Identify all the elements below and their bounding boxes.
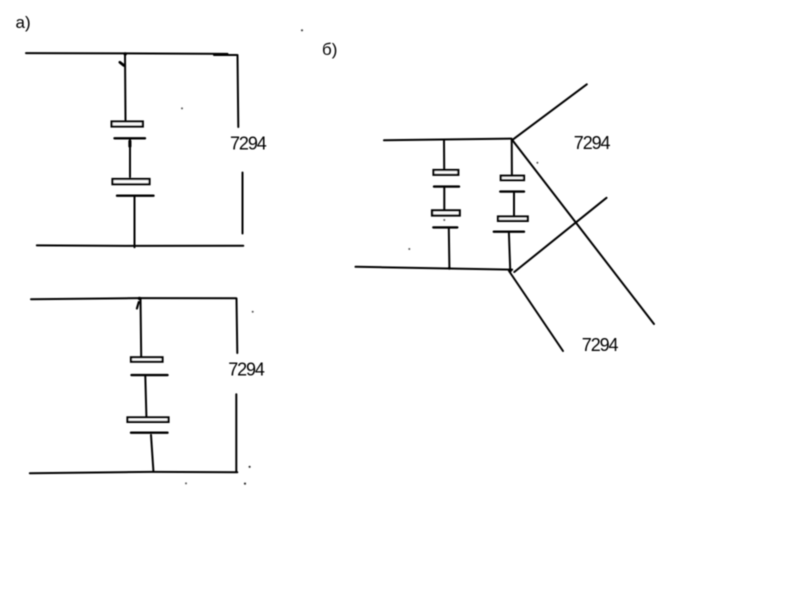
wire bottom bus of circuit b [356, 267, 513, 270]
wire from top bus down to C3 (a2) [140, 298, 143, 357]
wire between C7 and C8 (b right) [513, 193, 515, 216]
svg-text:7294: 7294 [228, 360, 265, 380]
thicker blob at top of a1 mid wire [128, 141, 131, 146]
wire right side bottom segment of a2 [235, 394, 237, 472]
junction blob b left branch at bottom bus [448, 267, 451, 270]
capacitor C8 bottom plate (b right) [494, 230, 524, 232]
stray dot right of b top node [536, 162, 538, 164]
svg-text:7294: 7294 [574, 133, 611, 153]
svg-text:7294: 7294 [582, 335, 619, 355]
wire right side top segment of a2 [236, 299, 239, 354]
junction blob a2 [138, 297, 141, 300]
wire between C3 and C4 (a2) [145, 376, 146, 417]
stray dot above б) label [301, 29, 303, 31]
wire between C1 and C2 (a1) [129, 140, 131, 178]
wire from C6 to bottom bus (b left) [448, 228, 451, 268]
wire right side bottom segment of a1 [242, 173, 244, 234]
capacitor C4 top plate (a2) [128, 417, 169, 422]
wire between C5 and C6 (b left) [443, 188, 445, 209]
capacitor C1 top plate (a1) [112, 122, 143, 127]
wire top bus of circuit a2 [31, 298, 236, 299]
wire diagonal from top node up-right (b) [513, 84, 587, 139]
wire bottom bus of circuit a1 [37, 244, 244, 247]
capacitor C4 bottom plate (a2) [131, 432, 168, 434]
wire from top bus down to C5 (b left branch) [443, 140, 445, 169]
stray dot upper right of a2 [252, 311, 254, 313]
wire from C8 to bottom node (b right) [509, 233, 510, 270]
wire top bus of circuit b [384, 139, 512, 141]
capacitor C7 top plate (b right) [501, 176, 524, 180]
wire from C2 to bottom bus (a1) [134, 197, 136, 248]
capacitor C3 top plate (a2) [131, 357, 163, 361]
capacitor C2 bottom plate (a1) [117, 194, 154, 196]
capacitor C5 bottom plate (b left) [434, 185, 459, 187]
wire from top bus down to C1 (a1) [124, 54, 127, 120]
wire diagonal from bottom node down-right (b) [509, 271, 563, 351]
svg-text:7294: 7294 [230, 133, 267, 153]
wire overlap stroke at right end of a1 top bus [214, 54, 237, 56]
capacitor C5 top plate (b left) [434, 170, 459, 175]
junction blob b bottom node [508, 269, 512, 273]
wire right side top segment of a1 [237, 55, 240, 127]
svg-text:a): a) [16, 13, 31, 32]
capacitor C8 top plate (b right) [498, 217, 528, 221]
junction blob a1 [124, 52, 127, 55]
stray dot left of b bottom bus [408, 248, 410, 250]
capacitor C7 bottom plate (b right) [500, 190, 524, 192]
wire top bus of circuit a1 [26, 52, 228, 55]
capacitor C1 bottom plate (a1) [115, 137, 146, 139]
stray dot near a1 [181, 107, 183, 109]
wire long diagonal from top node down-right (b) [512, 139, 655, 324]
capacitor C2 top plate (a1) [113, 179, 150, 184]
stray tick artifact on a1 top wire [120, 62, 124, 65]
wire from C4 to bottom bus (a2) [151, 435, 153, 471]
wire diagonal into bottom node from upper right (b) [514, 198, 606, 272]
stray dot below a2 bottom middle [185, 482, 187, 484]
capacitor C6 bottom plate (b left) [433, 226, 457, 228]
stray dot below a2 bottom right [244, 483, 246, 485]
wire from top node down to C7 (b right branch) [511, 139, 513, 175]
capacitor C6 top plate (b left) [432, 210, 460, 215]
arrow tick artifact on a2 vertical wire [137, 302, 139, 309]
capacitor C3 bottom plate (a2) [132, 374, 168, 376]
svg-text:б): б) [322, 40, 337, 59]
wire bottom bus of circuit a2 [30, 472, 238, 473]
stray dot right of a2 bottom corner [249, 466, 251, 468]
stray dot between plates of C6 [443, 219, 445, 221]
